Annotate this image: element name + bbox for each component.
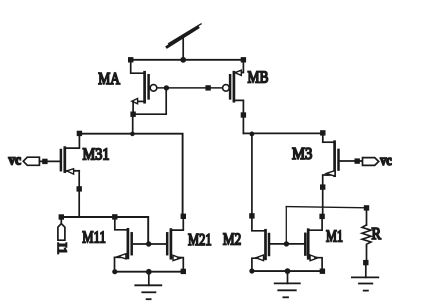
transistor M21 (NMOS) [167,216,183,271]
junction dot M2 drain [249,213,254,218]
svg-text:R: R [372,224,382,243]
junction dot MA source [130,112,135,117]
junction dot R bottom [363,260,368,265]
junction dot right bottom rail center [285,268,291,274]
junction dot R top [364,205,369,210]
junction dot right rail tap [250,132,255,137]
svg-text:M11: M11 [82,227,106,246]
junction dot lower rail left end [59,214,64,219]
power supply symbol [167,24,201,60]
svg-text:M21: M21 [188,230,212,249]
junction dot right rail corner [320,130,325,135]
svg-text:I1: I1 [55,243,69,255]
wire left bottom rail [115,271,184,273]
svg-text:M31: M31 [83,145,110,164]
wire MA to left rail [132,114,134,134]
svg-text:M1: M1 [326,227,343,246]
port vc left [23,157,60,165]
svg-text:M3: M3 [292,144,312,163]
transistor M1 (NMOS) [305,216,322,271]
svg-text:MA: MA [98,69,120,88]
wire gate bus MA-MB [157,87,223,89]
svg-text:vc: vc [9,153,22,169]
junction dot top-left [128,57,133,62]
junction dot M31 source [77,186,82,191]
wire M11 M21 gate bus [132,243,168,245]
transistor M2 (NMOS) [252,216,269,271]
junction dot M3 source [320,184,325,189]
junction dot right bottom rail left [249,268,254,273]
port vc right [363,158,379,166]
wire top rail [131,59,244,61]
junction dot left rail left end [77,131,82,136]
transistor M31 (NMOS) [61,134,80,217]
svg-text:vc: vc [380,153,392,169]
ground center [275,271,300,297]
wire left mid rail [79,134,182,217]
wire right bottom rail [252,270,323,272]
current source port I1 [58,217,65,240]
junction dot bottom rail left [112,269,117,274]
junction dot top-right [241,57,246,62]
junction dot gate tie [284,241,289,246]
junction dot right bottom rail right [320,269,325,274]
wire M2 drain drop [251,134,253,216]
wire MA gate tie [133,88,166,114]
junction dot vc right [355,158,360,163]
junction dot M1 drain [319,214,324,219]
svg-text:MB: MB [248,68,269,87]
wire M2 M1 gate bus [269,243,305,245]
junction dot vc left [42,159,47,164]
junction dot gate bus left [164,85,169,90]
node dot supply tap [180,57,186,63]
junction dot M21 source [181,269,186,274]
ground right [352,263,378,291]
junction dot left rail MA tap [130,132,135,137]
transistor M3 (NMOS) [323,142,363,217]
ground left [135,272,161,299]
junction dot MB drain [241,112,246,117]
resistor R [362,208,371,263]
transistor MA (PMOS) [131,60,157,114]
wire output node horizontal [286,207,366,208]
wire gate tie vertical center [285,207,287,244]
junction dot bottom rail center [146,269,152,275]
transistor M11 (NMOS) [115,217,132,272]
wire left lower rail [61,217,148,244]
junction dot gate bus right [205,85,210,90]
transistor MB (PMOS) [223,60,244,134]
svg-text:M2: M2 [223,229,241,248]
wire right mid rail [243,133,322,142]
junction dot M11 drain tap [112,214,117,219]
junction dot M21 drain [181,214,186,219]
junction dot gate bus center [146,241,151,246]
